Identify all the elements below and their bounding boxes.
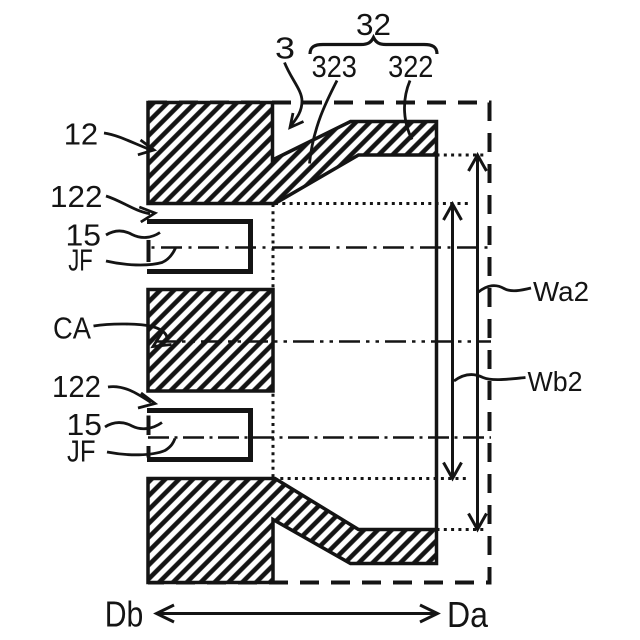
leader for 12 [104,133,149,149]
svg-text:CA: CA [53,311,91,346]
dotted line y=529.5 (right of bottom flange) [437,528,485,531]
leader for JF upper [106,248,176,265]
dotted line y=203.5 (inner top reference) [275,202,468,205]
JF center line (lower slot), dash-dot [148,436,491,439]
svg-text:JF: JF [68,243,93,278]
left tick of lower slot box (two segments) [147,416,151,436]
dashed boundary rectangle (open on left side) [148,103,490,583]
arrowhead for CA [153,331,172,347]
svg-text:Db: Db [105,594,144,635]
leader for 122 upper [106,196,150,214]
leader for CA [94,324,167,341]
dotted line y=478.5 (inner bottom reference) [273,477,468,480]
left tick of upper slot box [147,240,151,262]
leader for Wb2 (wavy) [454,375,526,381]
leader for JF lower [107,439,175,455]
leader for 322 [404,81,412,140]
dotted vertical line x=273 (inner wall face) [272,204,275,478]
svg-text:122: 122 [52,369,101,404]
dimension arrow Wa2 (x=477.5, y 155..529.5) [469,155,487,530]
leader for 15 lower [105,423,162,429]
core upper block 12 with flange (hatched) [148,103,437,204]
arrowhead for 122 lower [138,393,155,408]
CA center axis line, dash-dot-dot [155,340,491,343]
dotted line y=155 (right of top flange) [437,154,485,157]
svg-text:32: 32 [356,7,391,42]
svg-text:322: 322 [388,49,433,84]
leader for Wa2 (wavy) [478,286,531,293]
arrowhead for 3 [290,113,304,128]
svg-text:Da: Da [447,594,489,635]
svg-text:323: 323 [312,49,357,84]
arrowhead for 122 upper [139,207,155,222]
dimension arrow Wb2 (x=452.5, y 203.5..478.5) [444,204,462,479]
svg-text:122: 122 [50,179,103,214]
direction axis arrow Db-Da [157,605,438,622]
leader for 323 [310,81,338,164]
brace for 32 spanning flange [310,38,437,55]
svg-text:12: 12 [64,117,98,152]
slot conductor box 15 (lower, open left) [147,411,251,460]
JF center line (upper slot), dash-dot [152,246,492,249]
arrowhead for 12 [138,140,154,155]
core middle block CA (hatched) [148,290,273,392]
leader for 15 upper [106,231,160,237]
slot conductor box 15 (upper, open left) [147,222,251,272]
svg-text:3: 3 [275,30,295,65]
svg-text:Wb2: Wb2 [528,366,583,397]
inner cylinder wall line x=436.5 [435,153,439,531]
leader for 3 [285,63,303,126]
svg-text:Wa2: Wa2 [533,276,589,307]
core lower block with flange (hatched) [148,479,437,583]
svg-text:JF: JF [67,434,96,469]
leader for 122 lower [108,387,151,403]
